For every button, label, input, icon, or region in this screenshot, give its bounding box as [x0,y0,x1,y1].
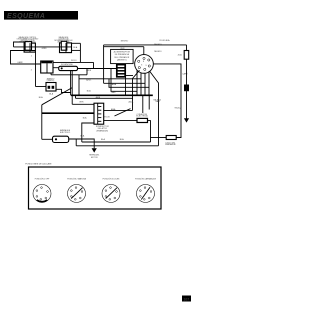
wire relay feed 1 [72,103,94,105]
svg-text:BLA: BLA [87,90,91,93]
title bar ESQUEMA [4,11,78,20]
switch S3 brake [41,61,53,73]
wire fuse drop [186,45,188,51]
solenoid K1 [59,66,78,70]
svg-text:AZUL: AZUL [129,100,135,103]
wire to solenoid [53,67,59,69]
ground label [89,154,100,159]
svg-text:CAFÉ: CAFÉ [17,61,23,64]
wire loop1 left [14,42,26,47]
wire drop S1 to seat [35,52,37,86]
svg-text:ELÉCTRICO: ELÉCTRICO [60,131,71,134]
wire stub 74-75 [75,95,77,98]
position circle [68,185,86,203]
svg-text:107: 107 [184,297,190,301]
svg-text:DEL OPERADOR: DEL OPERADOR [114,56,130,59]
relay PTO switch [94,103,104,124]
wire bottom run 1 [82,141,151,143]
switch S2 right lever [60,41,72,52]
switch S4 seat [46,83,56,92]
wire main top [14,46,72,48]
svg-text:BLA: BLA [73,46,77,49]
wire diode riser [142,95,144,113]
svg-text:POSICIÓN 1 OFF: POSICIÓN 1 OFF [35,178,50,181]
position circle [137,185,155,203]
svg-text:(ASIENTO): (ASIENTO) [117,59,127,62]
wire relay out top [104,109,133,111]
svg-text:(EMBRAGUE): (EMBRAGUE) [97,129,109,132]
wire block drop [125,77,127,96]
svg-text:(JINETE): (JINETE) [47,80,55,82]
connector blob [184,85,189,92]
diag connector [151,136,182,140]
wire seat drop [36,86,47,88]
label embrague [60,129,71,134]
svg-text:AMA: AMA [111,108,116,111]
wire ground feed [75,139,77,146]
svg-text:MOTOR: MOTOR [91,157,98,159]
wire clutch out [69,139,95,148]
operator presence text box [111,49,134,63]
svg-text:CAFÉ: CAFÉ [182,72,188,75]
wire fan 2 [140,73,142,96]
wire drop S2 [79,43,81,62]
wire lower left run [51,74,87,76]
svg-text:BLA: BLA [101,138,105,141]
page number box [182,296,191,302]
wire block to fan [125,75,133,77]
svg-text:GRIS: GRIS [42,48,48,50]
svg-text:S: S [146,65,147,67]
svg-text:AMA: AMA [112,83,117,86]
svg-text:BLA: BLA [80,135,84,138]
ground arrow [92,148,97,152]
wire fan 4 [148,71,150,95]
wire fan 1 [136,70,138,95]
wire bus 2 [104,46,144,48]
fuse F1 [178,51,189,60]
label conexion [136,113,148,118]
label palanca derecha [54,36,73,43]
svg-text:AL INTERRUPTOR: AL INTERRUPTOR [114,50,131,53]
svg-text:VER: VER [79,101,84,103]
wire bottom run 2 [76,145,158,147]
svg-text:POSICIÓN 3 LUCES: POSICIÓN 3 LUCES [103,178,121,181]
wire leg left [133,70,140,110]
svg-text:EMBRAGUE: EMBRAGUE [165,143,176,146]
svg-text:DE PRESENCIA: DE PRESENCIA [115,53,130,56]
label palanca izquierda [17,36,39,43]
wire diode drop [150,120,152,142]
svg-text:BLA: BLA [49,92,53,95]
wire seat out [56,89,71,92]
svg-text:ROJO: ROJO [71,60,77,62]
wire stub x149 [148,95,150,109]
wire stub circle top [143,47,145,55]
wire brake stub [50,73,52,75]
switch S1 left lever [24,42,35,53]
svg-text:POSICIÓN 4 ARRANQUE: POSICIÓN 4 ARRANQUE [135,178,157,181]
arrow to battery [184,118,189,122]
position circle [33,185,51,203]
wire S2 out bottom [72,49,81,51]
svg-text:POSICIÓN 2 MARCHA: POSICIÓN 2 MARCHA [67,178,86,181]
svg-text:POSICIONES DE LA LLAVE: POSICIONES DE LA LLAVE [25,163,52,166]
svg-text:ROJO: ROJO [104,116,110,118]
wire top bus to fuse [104,44,187,46]
key positions box [29,167,162,209]
wire rail x111 [111,68,137,91]
wire riser x43 [41,105,43,140]
svg-text:45 A: 45 A [178,54,183,57]
svg-text:NEGRO: NEGRO [154,51,162,53]
svg-text:ELÉCTRICA: ELÉCTRICA [136,115,148,118]
wire solenoid drop 1 [70,71,72,96]
relay label [96,126,110,132]
wire thick relay feed 2 [42,112,94,114]
wire riser x79 [78,75,80,96]
wire circle right [153,64,181,136]
wire solenoid out [78,68,120,70]
svg-text:NAR: NAR [111,91,116,94]
wire stub x93.5 [93,62,95,68]
connector block J1 [117,65,125,77]
svg-text:ESQUEMA: ESQUEMA [7,13,45,20]
diode D1 [137,118,148,122]
wire S2 out top [72,42,81,44]
wire fan 3 [144,73,146,95]
svg-text:BLA: BLA [120,138,124,141]
wire rail 83 [104,82,145,84]
wire battery drop [186,59,188,118]
wire diagonal 2 [115,109,131,116]
svg-text:NAR: NAR [155,100,160,103]
ignition switch circle [135,55,154,74]
wire thick bus [71,94,153,96]
wire rail ama [76,97,134,99]
svg-text:TB-BLA: TB-BLA [174,106,182,109]
wire to clutch [42,138,53,140]
svg-text:BLA: BLA [83,116,87,119]
clutch coil [53,136,69,142]
wire rail x109 [109,79,149,88]
svg-text:ROJO-BLA: ROJO-BLA [160,39,171,42]
svg-text:B: B [143,61,144,63]
wire relay feed 3 [82,123,94,142]
position circle [102,185,120,203]
wire riser x103 [103,45,105,83]
wire loop2 CAFE [11,51,41,65]
wire rail azul [79,78,141,80]
wire diode run [104,119,151,121]
svg-text:BLA: BLA [39,96,43,99]
diag connector label [165,142,176,146]
wire diagonal [42,88,72,105]
svg-text:NEGRO: NEGRO [121,41,129,43]
wire solenoid drop 2 [71,71,73,105]
wire riser x87 [86,69,88,75]
wire brake out top [52,61,94,63]
wire leg right diagonal [150,71,159,146]
